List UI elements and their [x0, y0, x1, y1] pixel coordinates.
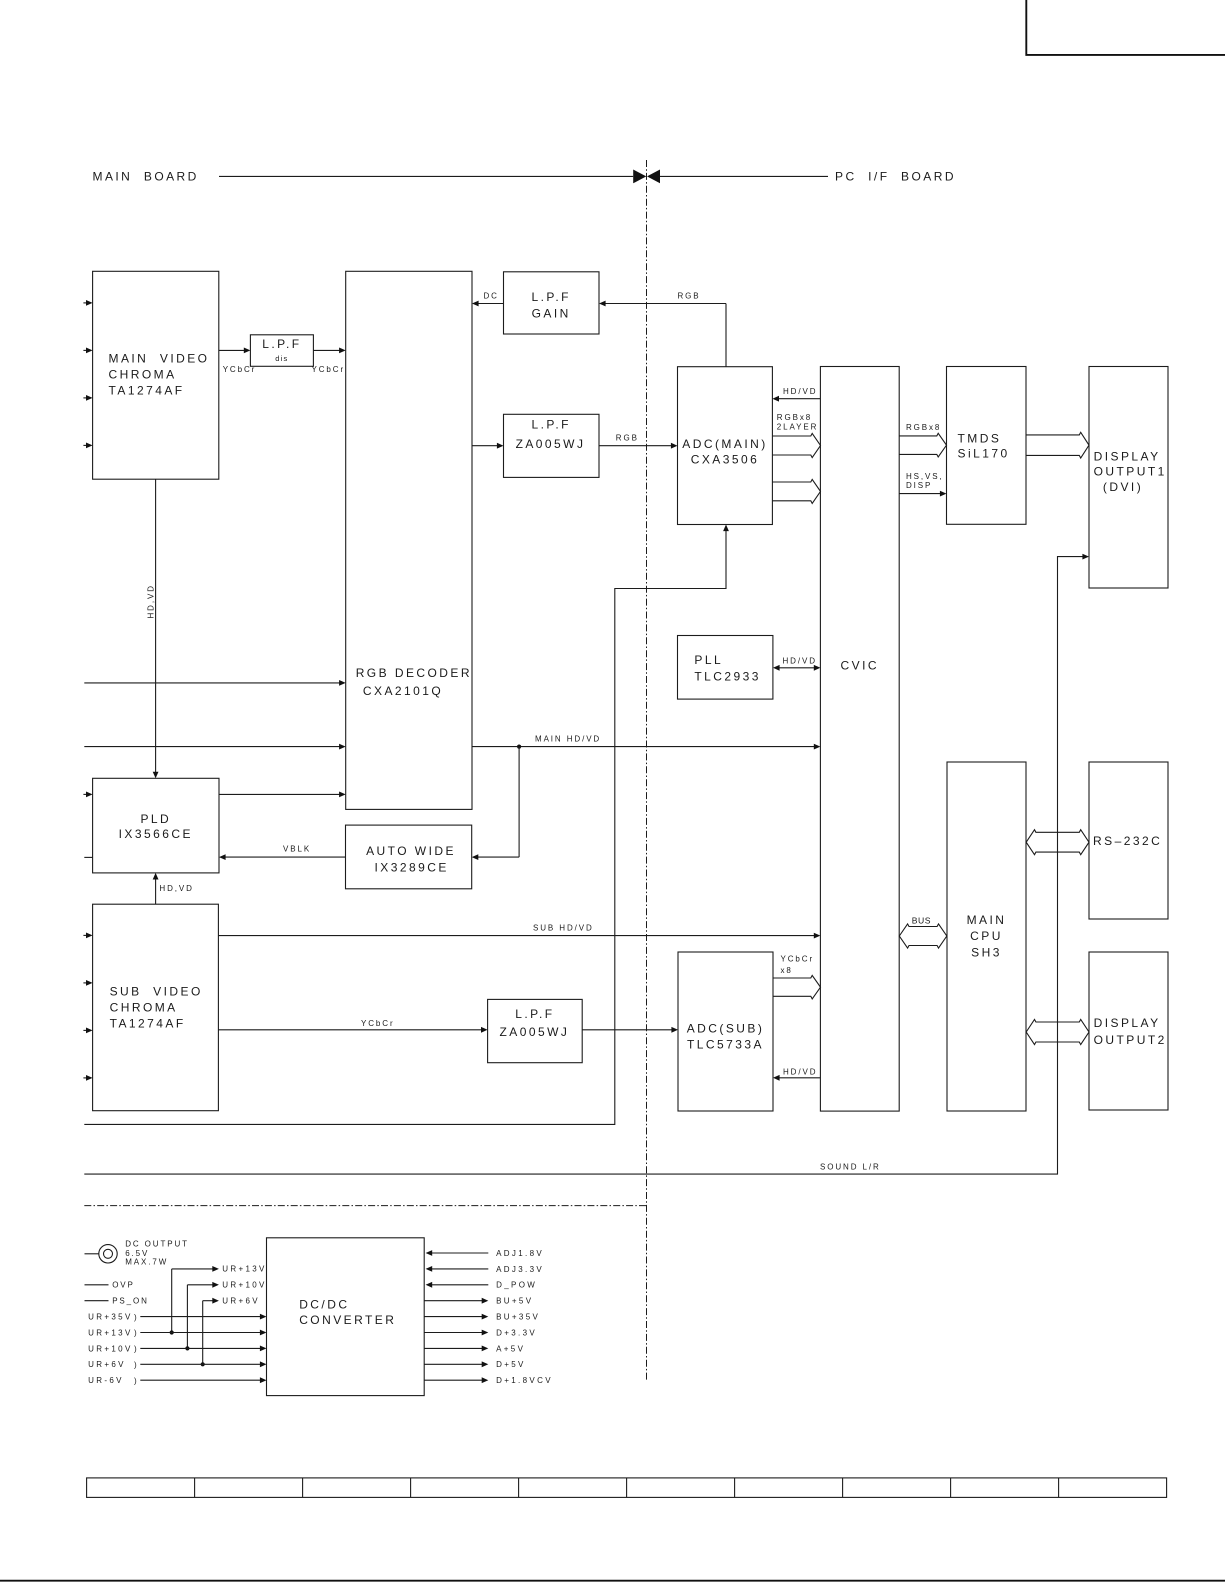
svg-text:L.P.F: L.P.F — [515, 1007, 554, 1021]
stub PS_ON — [85, 1300, 109, 1302]
wire HD/VD CVIC to U6 — [778, 398, 821, 400]
block U6 ADC(MAIN) CXA3506 — [678, 367, 773, 525]
svg-text:PC I/F BOARD: PC I/F BOARD — [835, 169, 956, 183]
svg-text:(DVI): (DVI) — [1103, 480, 1143, 494]
block U16 MAIN CPU SH3 — [947, 762, 1026, 1111]
svg-text:CPU: CPU — [970, 929, 1003, 943]
svg-text:CHROMA: CHROMA — [109, 368, 177, 382]
block U12 AUTO WIDE IX3289CE — [346, 825, 472, 889]
bus arrow BUS CVIC-U16 — [899, 924, 947, 948]
wire RGB U5 to U6 — [599, 445, 672, 447]
wire SOUND L/R — [84, 557, 1083, 1175]
wire feed into U6 bottom — [84, 530, 726, 1125]
board divider dash-dot horizontal — [84, 1205, 646, 1207]
block U14 L.P.F ZA005WJ sub — [488, 999, 583, 1062]
svg-text:): ) — [134, 1376, 139, 1385]
pin arrow into U11 left — [83, 793, 87, 795]
svg-text:x8: x8 — [781, 966, 793, 975]
svg-text:TLC2933: TLC2933 — [694, 670, 761, 684]
board divider dash-dot vertical — [646, 160, 648, 1381]
svg-text:ZA005WJ: ZA005WJ — [499, 1025, 569, 1039]
svg-text:RGBx8: RGBx8 — [777, 413, 812, 422]
svg-text:DC: DC — [484, 292, 499, 301]
block U13 SUB VIDEO CHROMA TA1274AF — [93, 904, 219, 1110]
wire output D+1.8VCV — [424, 1379, 483, 1381]
svg-text:DISP: DISP — [906, 481, 932, 490]
svg-text:ADJ3.3V: ADJ3.3V — [496, 1265, 544, 1274]
svg-text:): ) — [134, 1329, 139, 1338]
svg-text:MAIN BOARD: MAIN BOARD — [93, 169, 199, 183]
block U7 PLL TLC2933 — [678, 636, 773, 700]
svg-text:CHROMA: CHROMA — [110, 1000, 178, 1014]
svg-text:L.P.F: L.P.F — [532, 417, 571, 431]
svg-text:ADC(SUB): ADC(SUB) — [687, 1022, 765, 1036]
svg-text:ADJ1.8V: ADJ1.8V — [496, 1249, 544, 1258]
svg-text:HD/VD: HD/VD — [783, 387, 817, 396]
svg-text:HS,VS,: HS,VS, — [906, 472, 944, 481]
svg-text:CXA3506: CXA3506 — [691, 453, 760, 467]
svg-text:HD/VD: HD/VD — [783, 656, 817, 665]
wire YCbCr U1 to U2 — [219, 349, 245, 351]
wire SUB HD/VD — [218, 935, 815, 937]
wire output D+5V — [424, 1363, 483, 1365]
wire UR+6V tap — [202, 1301, 204, 1365]
svg-text:UR+10V: UR+10V — [222, 1281, 267, 1290]
wire output A+5V — [424, 1347, 483, 1349]
wire YCbCr U13 to U14 — [218, 1029, 482, 1031]
svg-text:HD,VD: HD,VD — [147, 584, 156, 618]
wire DC U4 to U3 — [477, 303, 503, 305]
wire UR+13V tap — [171, 1269, 173, 1333]
svg-text:SiL170: SiL170 — [958, 447, 1010, 461]
wire MAIN HD/VD right — [472, 746, 815, 748]
block U3 RGB DECODER CXA2101Q — [346, 271, 472, 809]
block U10 DISPLAY OUTPUT1 DVI — [1089, 367, 1168, 589]
svg-text:BUS: BUS — [912, 916, 931, 926]
svg-text:UR+6V: UR+6V — [222, 1297, 260, 1306]
svg-text:CVIC: CVIC — [841, 659, 879, 673]
pin arrows into U1 left edge — [83, 302, 87, 304]
bus arrow U16-RS232C — [1026, 830, 1089, 855]
wire VBLK U12 to U11 — [224, 856, 345, 858]
svg-text:MAIN: MAIN — [967, 913, 1007, 927]
svg-text:TA1274AF: TA1274AF — [109, 384, 185, 398]
svg-text:CONVERTER: CONVERTER — [299, 1313, 396, 1327]
wire U11 to U3 — [219, 793, 340, 795]
svg-text:BU+5V: BU+5V — [496, 1297, 533, 1306]
wire HD/VD U7 CVIC bidirectional — [778, 667, 815, 669]
svg-text:OUTPUT1: OUTPUT1 — [1094, 465, 1167, 479]
svg-text:PLD: PLD — [140, 812, 171, 826]
bus arrow CVIC to U9 — [899, 433, 946, 457]
svg-text:IX3566CE: IX3566CE — [119, 827, 193, 841]
svg-text:DISPLAY: DISPLAY — [1094, 450, 1161, 464]
svg-text:IX3289CE: IX3289CE — [375, 861, 449, 875]
wire MAIN HD/VD left — [84, 746, 340, 748]
svg-text:SOUND L/R: SOUND L/R — [820, 1162, 881, 1171]
page bottom rule — [0, 1580, 1225, 1582]
block U2 L.P.F dis — [250, 335, 313, 367]
block U19 DC/DC CONVERTER — [267, 1238, 425, 1396]
bus arrow U6 to CVIC upper — [772, 433, 820, 457]
wire MAIN HD/VD to U12 — [518, 747, 520, 858]
block U5 L.P.F ZA005WJ — [504, 414, 600, 477]
svg-text:D+1.8VCV: D+1.8VCV — [496, 1376, 553, 1385]
wire input D_POW — [431, 1284, 488, 1286]
svg-text:UR+13V: UR+13V — [88, 1328, 133, 1337]
bus arrow U15 to CVIC — [773, 975, 821, 999]
svg-text:RGBx8: RGBx8 — [906, 423, 941, 432]
wire into U3 row1 — [84, 682, 340, 684]
wire HD,VD U13 to U11 — [155, 878, 157, 904]
wire U3 to U5 — [472, 445, 498, 447]
svg-text:OVP: OVP — [112, 1281, 135, 1290]
svg-text:MAIN VIDEO: MAIN VIDEO — [109, 352, 210, 366]
svg-text:D+5V: D+5V — [496, 1360, 526, 1369]
svg-text:RS–232C: RS–232C — [1093, 834, 1162, 848]
svg-text:DC/DC: DC/DC — [299, 1297, 349, 1311]
connector DC OUTPUT jack — [85, 1253, 99, 1255]
svg-text:YCbCr: YCbCr — [312, 365, 346, 374]
svg-text:UR-6V: UR-6V — [88, 1376, 124, 1385]
svg-text:): ) — [134, 1361, 139, 1370]
svg-text:AUTO WIDE: AUTO WIDE — [366, 844, 456, 858]
svg-text:): ) — [134, 1345, 139, 1354]
wire header rule left — [219, 175, 633, 177]
svg-text:): ) — [134, 1313, 139, 1322]
wire output D+3.3V — [424, 1332, 483, 1334]
svg-text:TLC5733A: TLC5733A — [687, 1038, 764, 1052]
svg-text:dis: dis — [275, 354, 288, 363]
svg-text:2LAYER: 2LAYER — [777, 422, 819, 431]
bus arrow U6 to CVIC lower — [772, 479, 820, 503]
pin arrows into U13 left edge — [83, 934, 87, 936]
page frame top-right corner box — [1026, 0, 1225, 55]
svg-text:D_POW: D_POW — [496, 1281, 537, 1290]
svg-text:ADC(MAIN): ADC(MAIN) — [682, 437, 767, 451]
svg-text:SH3: SH3 — [971, 945, 1002, 959]
svg-text:GAIN: GAIN — [532, 306, 571, 320]
board divider arrow left — [633, 170, 646, 184]
block U17 RS-232C — [1089, 762, 1168, 919]
svg-text:HD/VD: HD/VD — [783, 1067, 817, 1076]
stub U11 left lower — [84, 856, 92, 858]
bus arrow U16-U18 — [1026, 1019, 1089, 1044]
svg-text:DISPLAY: DISPLAY — [1094, 1016, 1161, 1030]
wire input ADJ1.8V — [431, 1252, 488, 1254]
svg-text:PS_ON: PS_ON — [112, 1296, 149, 1305]
wire HD/VD CVIC to U15 — [778, 1077, 820, 1079]
svg-text:SUB HD/VD: SUB HD/VD — [533, 924, 594, 933]
svg-text:HD,VD: HD,VD — [159, 884, 193, 893]
svg-text:RGB: RGB — [616, 434, 639, 443]
svg-text:YCbCr: YCbCr — [223, 365, 257, 374]
svg-text:UR+13V: UR+13V — [222, 1265, 267, 1274]
svg-text:TMDS: TMDS — [958, 432, 1002, 446]
block U9 TMDS SiL170 — [947, 367, 1027, 525]
svg-text:UR+35V: UR+35V — [88, 1313, 133, 1322]
block U11 PLD IX3566CE — [93, 778, 219, 873]
stub OVP — [85, 1284, 109, 1286]
svg-text:PLL: PLL — [694, 653, 723, 667]
svg-text:UR+6V: UR+6V — [88, 1360, 126, 1369]
svg-text:TA1274AF: TA1274AF — [110, 1016, 186, 1030]
wire UR+10V tap — [186, 1285, 188, 1349]
svg-text:ZA005WJ: ZA005WJ — [516, 437, 586, 451]
svg-text:RGB: RGB — [678, 292, 701, 301]
svg-text:BU+35V: BU+35V — [496, 1313, 540, 1322]
svg-text:D+3.3V: D+3.3V — [496, 1328, 537, 1337]
wire HD,VD U1 to U11 — [155, 479, 157, 773]
svg-text:L.P.F: L.P.F — [532, 290, 571, 304]
block U1 MAIN VIDEO CHROMA TA1274AF — [93, 271, 219, 479]
wire RGB U6 top to U4 — [604, 303, 726, 305]
revision table — [87, 1478, 1167, 1498]
wire HS VS DISP — [899, 493, 942, 495]
svg-text:DC OUTPUT: DC OUTPUT — [125, 1240, 189, 1249]
block U15 ADC(SUB) TLC5733A — [678, 952, 773, 1111]
svg-text:MAX.7W: MAX.7W — [125, 1258, 168, 1267]
block U4 L.P.F GAIN — [504, 272, 600, 334]
svg-text:L.P.F: L.P.F — [262, 337, 301, 351]
svg-text:VBLK: VBLK — [283, 845, 311, 854]
svg-text:SUB VIDEO: SUB VIDEO — [110, 985, 203, 999]
svg-text:CXA2101Q: CXA2101Q — [363, 684, 443, 698]
wire output BU+5V — [424, 1300, 483, 1302]
block U18 DISPLAY OUTPUT2 — [1089, 952, 1168, 1110]
block U8 CVIC — [820, 367, 899, 1112]
wire output BU+35V — [424, 1316, 483, 1318]
wire YCbCr U2 to U3 — [313, 349, 340, 351]
svg-text:OUTPUT2: OUTPUT2 — [1094, 1033, 1167, 1047]
svg-text:YCbCr: YCbCr — [781, 955, 815, 964]
wire header rule right — [660, 175, 828, 177]
wire U14 to U15 — [582, 1029, 673, 1031]
svg-text:6.5V: 6.5V — [125, 1249, 149, 1258]
bus arrow U9 to U10 — [1026, 432, 1089, 458]
svg-text:A+5V: A+5V — [496, 1344, 525, 1353]
junction MAIN HD/VD — [517, 745, 521, 749]
wire input ADJ3.3V — [431, 1268, 488, 1270]
svg-text:YCbCr: YCbCr — [361, 1019, 395, 1028]
svg-text:MAIN HD/VD: MAIN HD/VD — [535, 735, 601, 744]
svg-text:UR+10V: UR+10V — [88, 1344, 133, 1353]
board divider arrow right — [647, 170, 660, 184]
svg-text:RGB DECODER: RGB DECODER — [356, 666, 472, 680]
